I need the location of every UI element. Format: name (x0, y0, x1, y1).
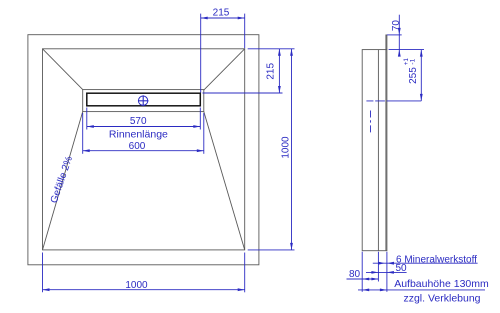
dimension 255: label with tolerance (403, 58, 419, 84)
side view layer line 80/50 (377, 50, 379, 251)
bottom extension line left (361, 252, 363, 292)
dimension 6 Mineralwerkstoff: leader and shelf (373, 262, 478, 264)
svg-text:-1: -1 (410, 58, 417, 64)
dimension 215 right: arrowheads (278, 49, 281, 56)
side view mineral layer line (385, 50, 387, 251)
dimension 600: arrowheads (83, 149, 90, 152)
side view body outline (362, 50, 387, 251)
fold line bottom-right (204, 112, 245, 250)
svg-text:Rinnenlänge: Rinnenlänge (109, 129, 168, 141)
fold line bottom-left (43, 112, 83, 250)
dimension 215 right: dimension line (278, 49, 280, 93)
dimension 570: dimension line (87, 126, 201, 128)
dimension 215 top: arrowheads (201, 17, 208, 20)
dimension 1000 bottom: extension lines (42, 253, 44, 293)
dimension 6: arrowheads (378, 262, 385, 265)
svg-text:1000: 1000 (125, 280, 148, 291)
dimension 570: arrowheads (87, 125, 94, 128)
svg-text:Gefälle 2%: Gefälle 2% (49, 155, 75, 205)
dimension 50: dimension line and shelf (366, 271, 407, 273)
bottom extension line middle (377, 252, 379, 282)
drain centerline horizontal (dash-dot) (366, 100, 421, 102)
fold line top-right (204, 49, 245, 90)
svg-text:50: 50 (395, 263, 407, 274)
dimension Aufbauhoehe: dimension line and shelf (358, 289, 485, 291)
dimension 255: arrowheads (420, 50, 423, 57)
dimension 1000 bottom: dimension line (43, 289, 245, 291)
dimension 50: arrowheads (371, 271, 378, 274)
dimension 70: dimension line (398, 15, 400, 57)
drain symbol circle (138, 96, 147, 105)
drain centerline vertical (dash-dot) (370, 111, 372, 133)
dimension 70: arrowheads (398, 28, 401, 35)
svg-text:6 Mineralwerkstoff: 6 Mineralwerkstoff (396, 254, 477, 265)
top surface extension line (389, 49, 424, 51)
svg-text:zzgl. Verklebung: zzgl. Verklebung (403, 292, 480, 304)
dimension 80: arrowheads (362, 278, 369, 281)
svg-text:80: 80 (349, 269, 361, 280)
svg-text:1000: 1000 (281, 136, 292, 159)
svg-text:255: 255 (408, 67, 419, 84)
dimension 215 right: extension lines (248, 48, 295, 50)
svg-text:215: 215 (266, 63, 277, 80)
dimension 1000 right: extension line bottom (248, 249, 295, 251)
inner square (shower surface edge) (43, 49, 245, 250)
drain channel inner rect (87, 93, 201, 106)
drain symbol cross (138, 100, 149, 102)
dimension 80: dimension line (347, 278, 379, 280)
svg-text:215: 215 (213, 8, 230, 19)
bottom extension line right (386, 252, 388, 292)
svg-text:70: 70 (391, 20, 402, 32)
dimension 570: extension lines (86, 108, 88, 130)
svg-text:570: 570 (130, 116, 147, 127)
dimension 255: dimension line (420, 50, 422, 101)
svg-text:Aufbauhöhe 130mm: Aufbauhöhe 130mm (394, 278, 489, 290)
dimension 1000 bottom: arrowheads (43, 288, 50, 291)
svg-text:600: 600 (129, 141, 146, 152)
fold line top-left (43, 49, 83, 90)
dimension 600: extension lines (82, 113, 84, 154)
dimension 1000 right: arrowheads (290, 49, 293, 56)
dimension 1000 right: dimension line (291, 49, 293, 250)
dimension 70: extension tick top (387, 34, 402, 36)
side view upstand (386, 35, 387, 50)
dimension 600: dimension line (83, 150, 204, 152)
outer square (plan view outline) (28, 35, 259, 265)
dimension 215 top: dimension line (201, 17, 245, 19)
drain channel outer rect (83, 90, 204, 112)
dimension 215 top: extension lines (200, 14, 202, 93)
dimension Aufbauhoehe: arrowheads (362, 289, 369, 292)
